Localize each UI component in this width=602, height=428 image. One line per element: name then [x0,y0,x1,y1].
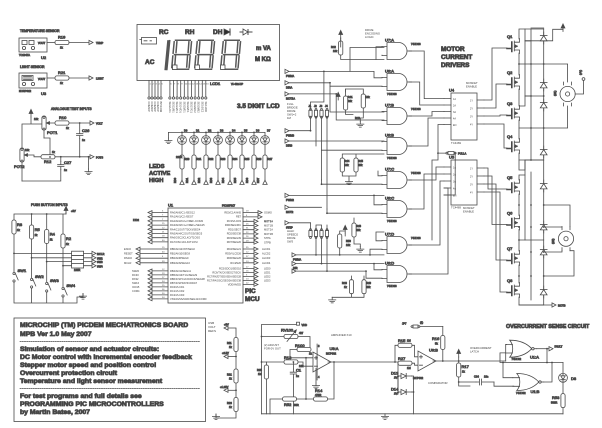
svg-text:1u: 1u [64,168,67,172]
MOSFET Q8 [507,283,520,298]
supply +5V [29,109,33,117]
diode D14 [391,387,412,396]
PIC MCU U1 box [168,208,243,303]
svg-text:PIC: PIC [245,288,256,295]
wire gate B inputs [330,83,384,120]
svg-text:R36: R36 [257,157,262,161]
svg-text:D0: D0 [184,129,188,133]
svg-text:RD7: RD7 [256,177,260,183]
svg-text:VDD/AVDD: VDD/AVDD [228,283,241,287]
terminal STEP [285,221,289,225]
svg-text:74HC08: 74HC08 [411,107,421,111]
ground [345,179,352,185]
resistor R4 [45,230,49,244]
terminal VM1 [582,78,585,81]
svg-text:VOUT: VOUT [38,77,46,81]
wire [79,139,81,157]
resistor R5 [30,225,34,239]
driver U4 box [451,93,477,140]
svg-text:10k: 10k [358,163,363,167]
jumper J6 [314,229,317,239]
svg-text:4A: 4A [453,117,456,120]
svg-text:+5V: +5V [224,323,229,327]
svg-text:POT2: POT2 [14,164,25,169]
title separator 2 [20,388,200,390]
svg-text:TEMP: TEMP [96,41,103,45]
svg-text:VSS/AVSS/GND/SEG41/COM0: VSS/AVSS/GND/SEG41/COM0 [170,297,207,301]
svg-text:R21: R21 [227,373,232,377]
svg-text:1A: 1A [453,166,456,169]
svg-text:U6:C: U6:C [385,196,394,201]
svg-text:56R: 56R [294,403,299,407]
PIC left pin group2 wires [140,249,168,263]
svg-text:SW4: SW4 [97,264,103,268]
svg-text:MPB Ver 1.0 May 2007: MPB Ver 1.0 May 2007 [20,331,92,338]
MOSFET Q5 [507,180,520,195]
svg-text:3A: 3A [453,111,456,114]
svg-text:RD7/SEG20: RD7/SEG20 [227,240,242,244]
svg-text:ENC0: ENC0 [124,247,131,251]
svg-text:8: 8 [318,344,320,348]
wire [84,253,92,265]
svg-text:RB4/AN11/SEG11: RB4/AN11/SEG11 [170,269,192,273]
wire cross links [519,28,544,160]
terminal RD3 [209,177,220,184]
svg-text:DRIVERS: DRIVERS [441,62,470,69]
svg-text:RD1: RD1 [185,177,189,183]
svg-text:U5: U5 [449,155,455,160]
wire [22,116,44,181]
PIC right pin labels mid [225,247,241,265]
svg-text:R32: R32 [209,157,214,161]
svg-text:1k: 1k [52,150,55,154]
resistor network RN1 [72,251,84,272]
svg-text:Q1: Q1 [507,34,513,39]
ground [212,414,219,420]
diode D8a [540,286,547,298]
terminal RC3 [292,269,296,273]
svg-text:RD2: RD2 [197,177,201,183]
svg-text:ICD2: ICD2 [133,218,139,222]
svg-text:R49: R49 [366,281,371,285]
wire U7:B out to U4 [409,112,444,117]
diode rail [543,29,545,305]
MOSFET Q1 [507,39,520,54]
svg-text:TEMPERATURE SENSOR: TEMPERATURE SENSOR [20,29,60,33]
resistor R49 [362,280,366,294]
svg-text:FAULT: FAULT [555,345,563,349]
wire to ground [216,412,236,419]
svg-text:RE7: RE7 [236,215,242,219]
svg-text:SEG9/B2: SEG9/B2 [197,102,201,114]
wire U7:A out to U4 [409,51,444,99]
wire [235,352,237,370]
switch SW4 [62,287,67,297]
svg-text:8: 8 [178,84,180,86]
LED rail wire [168,132,265,138]
resistor R42 [340,38,342,41]
svg-text:SW4: SW4 [66,283,75,288]
svg-text:10k: 10k [366,95,371,99]
svg-text:74HC08: 74HC08 [411,171,421,175]
terminal PWMA [285,69,289,73]
svg-text:74HC02: 74HC02 [512,357,522,361]
terminal PWMC [285,193,289,197]
svg-text:U7:D: U7:D [385,232,394,237]
svg-text:RD6: RD6 [245,177,249,183]
svg-text:R25: R25 [257,368,262,372]
resistor R21 [55,76,69,80]
svg-text:DC Motor control with incremen: DC Motor control with incremental encode… [20,354,192,361]
svg-text:MOT1B: MOT1B [264,224,273,228]
terminal DIRA [285,81,289,85]
svg-text:MOT2: MOT2 [286,210,294,214]
terminal SW4 [92,264,96,268]
svg-text:D3: D3 [220,129,224,133]
resistor R36 [252,155,256,169]
svg-text:PWMA: PWMA [293,258,301,262]
supply arrow mid [336,92,340,100]
svg-text:10k: 10k [25,148,30,152]
svg-text:R30: R30 [185,157,190,161]
svg-text:SE11/D2: SE11/D2 [204,102,208,113]
svg-text:RB2/AN8/SEG9: RB2/AN8/SEG9 [170,256,189,260]
PIC right terminals mid [254,247,258,265]
terminal MOT1A [285,92,289,96]
LCD digit 1 [165,41,169,70]
wire output [328,361,398,363]
PIC left pin labels group1 [170,211,205,244]
wire bridge B [519,29,544,170]
AND gate U7:D [382,237,412,254]
title separator 1 [20,341,200,343]
svg-text:R14: R14 [315,388,323,393]
svg-text:R34: R34 [233,157,238,161]
svg-text:+2.5V: +2.5V [222,351,229,355]
svg-text:RC30: RC30 [132,273,139,277]
svg-text:RD4: RD4 [221,177,225,183]
svg-text:LIGHT: LIGHT [96,77,104,81]
svg-text:J2: J2 [314,104,317,108]
svg-text:D5: D5 [244,129,248,133]
svg-text:TC4469: TC4469 [451,141,461,145]
PIC left pin labels group2 [170,247,195,265]
svg-text:J3: J3 [320,104,323,108]
svg-text:10k: 10k [356,228,361,232]
svg-text:LED0: LED0 [264,267,271,271]
svg-text:R100: R100 [295,343,305,348]
svg-text:3.5 DIGIT LCD: 3.5 DIGIT LCD [237,103,280,110]
svg-text:7: 7 [174,84,176,86]
temperature sensor U2 [19,38,47,52]
PIC left group2 outer labels [124,247,133,265]
ground [357,122,364,128]
svg-text:C24: C24 [474,375,479,379]
AND gate U7:B [382,108,412,125]
svg-text:R45: R45 [358,159,363,163]
LCD digit 8 (a) [172,40,192,69]
terminal MCLR [92,251,96,255]
svg-text:R10: R10 [59,115,67,120]
resistor R43 [361,94,365,108]
svg-text:(1): (1) [420,321,423,325]
terminal +1.25V tap [224,388,228,392]
svg-text:4Y: 4Y [470,123,473,126]
svg-text:RB3/AN9/SEG10: RB3/AN9/SEG10 [170,261,190,265]
PIC left pin group3 wires [152,271,168,299]
stepper motor M2 [558,227,573,251]
offset null note [264,343,281,351]
svg-text:RB0/AN12/INT/SEG0: RB0/AN12/INT/SEG0 [170,247,195,251]
svg-text:R13: R13 [284,355,292,360]
svg-text:(+V): (+V) [579,70,583,75]
svg-text:MOT1A: MOT1A [286,97,295,101]
svg-text:PIC16F917: PIC16F917 [222,204,236,208]
svg-text:R2: R2 [66,236,72,241]
svg-text:D7: D7 [267,129,271,133]
MOSFET Q6 [507,215,520,230]
svg-text:D1: D1 [196,129,200,133]
resistor R46 [349,280,353,294]
svg-text:FOR 0V OUT: FOR 0V OUT [264,347,281,351]
PIC pin numbers [162,211,249,299]
svg-text:MCP602: MCP602 [326,352,337,356]
AND gate U6:A [382,74,412,91]
svg-text:74HC08: 74HC08 [387,92,397,96]
terminal RD0 [173,177,184,184]
svg-text:1k: 1k [66,242,69,246]
svg-text:COM4: COM4 [132,289,140,293]
svg-text:R46: R46 [342,281,347,285]
svg-text:C26: C26 [82,128,90,133]
svg-text:RA4/C1OUT/T0CKI/SEG4: RA4/C1OUT/T0CKI/SEG4 [170,227,201,231]
wire drain rail bridge A [519,29,544,106]
svg-text:5: 5 [162,84,164,86]
svg-text:MICROCHIP (TM) PICDEM MECHATRO: MICROCHIP (TM) PICDEM MECHATRONICS BOARD [20,322,188,329]
wire U5 outputs to FET gates [484,168,507,292]
svg-text:RS232: RS232 [124,256,132,260]
svg-text:R53: R53 [552,395,560,400]
svg-text:RC0/VLCD1: RC0/VLCD1 [170,285,185,289]
supply arrow top [339,30,343,38]
svg-text:Stepper motor speed and positi: Stepper motor speed and position control [20,362,156,369]
svg-text:2A: 2A [453,104,456,107]
terminal SW3 [92,260,96,264]
note overcurrent latch [470,346,492,354]
resistor R14 [314,397,328,401]
wire comparator out [433,350,506,362]
PIC left pin labels group3 [170,269,207,301]
PIC left group2 terminals [136,247,140,265]
svg-text:PROGRAMMING PIC MICROCONTROLLE: PROGRAMMING PIC MICROCONTROLLERS [20,401,164,408]
PIC left group3 terminals [148,269,152,301]
LED D1 [190,136,199,145]
AND gate U7:A [382,43,412,60]
terminal +5V tap [224,326,228,330]
resistor R37 [263,155,267,169]
wire U7:C U6:C inputs [322,171,383,184]
svg-text:3Y: 3Y [470,183,473,186]
svg-text:RA7/OSC1/CLKI/T1OSI: RA7/OSC1/CLKI/T1OSI [170,240,198,244]
wire [298,337,310,350]
wire [398,376,414,414]
wire [341,38,384,71]
svg-text:1M: 1M [287,116,292,120]
svg-text:SW3: SW3 [50,278,59,283]
wire [562,408,564,414]
diode D5 [540,180,547,192]
resistor R13 [262,361,285,363]
resistor R53 [561,394,565,408]
svg-text:SEG4/D1: SEG4/D1 [179,102,183,114]
svg-text:4k7: 4k7 [299,331,304,335]
wire [459,377,476,382]
LCD arrow icon 1 [224,29,230,35]
OR gate U1:A [506,340,537,357]
svg-text:HIGH: HIGH [149,178,164,184]
svg-text:PULLA: PULLA [458,152,466,156]
switch SW1 [13,272,18,282]
resistor R100 [297,347,311,351]
svg-text:SW1: SW1 [18,268,27,273]
svg-text:DIRA: DIRA [286,85,292,89]
capacitor C26 [77,131,83,139]
svg-text:LED1: LED1 [264,271,271,275]
wire U6:D inputs [366,264,382,279]
svg-text:R35: R35 [245,157,250,161]
svg-text:4Y: 4Y [470,191,473,194]
ground [165,138,172,144]
svg-text:10k: 10k [346,243,351,247]
resistor R15 [395,345,398,362]
svg-text:m VA: m VA [256,46,272,52]
LCD pins group1 [149,81,161,98]
wire [298,362,306,366]
svg-text:OVERCURRENT SENSE CIRCUIT: OVERCURRENT SENSE CIRCUIT [506,324,590,330]
resistor R50 [338,234,342,248]
svg-text:VDD: VDD [302,323,308,327]
svg-text:RC3/VLCD3: RC3/VLCD3 [227,219,242,223]
svg-text:2: 2 [153,84,155,86]
diode D7 [540,246,547,258]
svg-text:PUSH BUTTON INPUTS: PUSH BUTTON INPUTS [31,203,68,207]
svg-text:REFS: REFS [208,329,216,333]
svg-text:PWM2: PWM2 [286,198,294,202]
wire [270,399,306,414]
svg-text:R11: R11 [227,341,232,345]
trimpot RV100 [262,336,285,338]
svg-text:ICD15: ICD15 [132,285,140,289]
AND gate U6:D [382,266,412,283]
wire [69,42,89,44]
svg-text:(M2): (M2) [551,239,555,244]
terminal RC2 [292,262,296,266]
LED D6 [250,136,259,145]
resistor R41 [345,89,347,92]
wire columns [14,234,63,287]
svg-text:MCP602: MCP602 [413,376,424,380]
svg-text:C1: C1 [296,368,302,373]
svg-text:6: 6 [170,84,172,86]
wire to LED [562,363,564,374]
svg-text:R42: R42 [331,45,336,49]
note amplifier x10 [331,333,352,337]
svg-text:Overcurrent protection circuit: Overcurrent protection circuit [20,370,118,377]
svg-text:10k: 10k [348,99,353,103]
resistor R25 [264,365,268,379]
capacitor C24 [474,375,494,386]
wire second rail segments [525,29,531,300]
LCD module LCD1 box [137,25,280,81]
svg-text:U1: U1 [168,203,174,208]
driver U5 box [451,160,477,205]
svg-text:D13: D13 [391,371,399,376]
svg-text:JP7: JP7 [402,322,407,326]
LCD battery icon [140,38,157,45]
svg-text:by Martin Bates, 2007: by Martin Bates, 2007 [20,409,90,416]
resistor R45 [354,158,358,172]
jumper PULLA [446,152,467,156]
svg-text:RD5: RD5 [233,177,237,183]
svg-text:D4: D4 [232,129,236,133]
U5 pin stubs [444,167,484,195]
supply +5V [64,206,68,214]
svg-text:Q4: Q4 [507,134,513,139]
wire U6:A inputs [324,71,382,86]
diode D2 [540,79,547,91]
svg-text:EN: EN [453,124,457,127]
svg-text:R5: R5 [35,227,41,232]
terminal MOTB [552,303,556,307]
resistor R32 [204,155,208,169]
svg-text:MOTOR: MOTOR [441,46,465,53]
wire [459,382,514,386]
DC motor M1 [560,82,575,106]
LCD pin labels [147,102,208,114]
svg-text:SEG3/C1: SEG3/C1 [175,102,179,114]
svg-text:SEG5/E1: SEG5/E1 [182,102,186,114]
diode D13 [391,371,412,380]
svg-text:R12: R12 [44,159,52,164]
svg-text:TC1047A: TC1047A [19,53,30,57]
svg-text:MCLR: MCLR [97,252,104,256]
svg-text:Simulation of sensor and actua: Simulation of sensor and actuator circui… [20,346,159,353]
svg-text:RC2/VLCD3: RC2/VLCD3 [170,293,185,297]
diode D3 [540,99,547,111]
svg-text:DIRB: DIRB [286,144,292,148]
svg-text:9: 9 [181,84,183,86]
terminal FAULT [549,347,553,351]
svg-text:BP/COM: BP/COM [159,102,163,113]
svg-text:RD2/SEG38: RD2/SEG38 [227,232,242,236]
diode D4 [540,146,547,158]
svg-text:NORPS12: NORPS12 [19,89,32,93]
svg-text:Q7: Q7 [507,246,513,251]
jumper J8 [325,229,328,239]
wire resistors to terminals [182,169,265,180]
jumper J3 [320,108,323,118]
wire [27,155,41,157]
terminal VOLT [90,121,94,125]
jumper J5 [309,229,312,239]
wire U7:C out to U5 [409,167,444,180]
diode D6 [540,221,547,233]
resistor R19 [55,40,69,44]
svg-text:RH: RH [185,29,195,36]
svg-text:VOLT: VOLT [96,122,103,126]
svg-text:RD4/SEG21: RD4/SEG21 [227,247,242,251]
svg-text:2A: 2A [453,173,456,176]
